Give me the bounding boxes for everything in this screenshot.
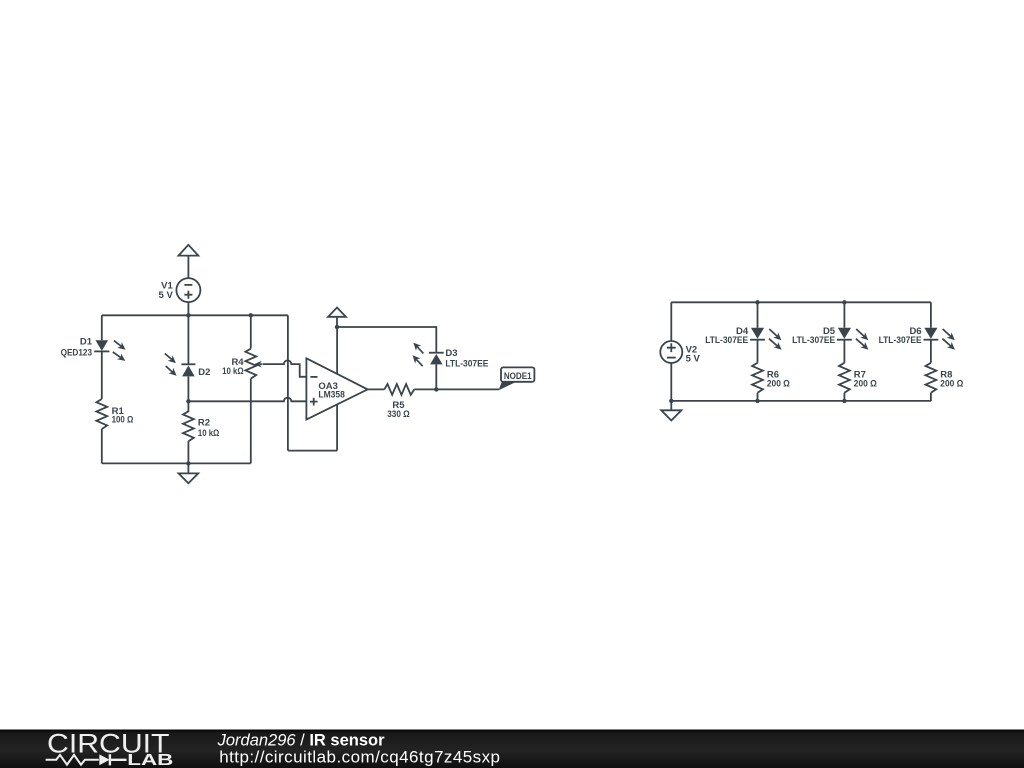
wire R6 to bottom rail — [757, 393, 759, 401]
resistor R6 — [752, 363, 790, 393]
led D5 LTL-307EE — [792, 326, 868, 350]
resistor R5 — [384, 384, 414, 420]
wire R7 to bottom rail — [843, 393, 845, 401]
node junction D3/R5 — [434, 387, 438, 391]
voltage source V1 — [159, 278, 201, 302]
wire top rail right — [671, 301, 931, 303]
wire D4 to R6 — [757, 340, 759, 363]
node junction bottom rail at ground — [186, 461, 190, 465]
wire bottom rail — [102, 462, 251, 464]
wire top rail — [102, 314, 288, 316]
node junction bottom rail D5 branch — [842, 399, 846, 403]
power supply symbol VCC2 — [328, 308, 346, 328]
svg-text:5 V: 5 V — [159, 290, 174, 301]
wire D3 to output — [435, 364, 437, 389]
svg-text:10 kΩ: 10 kΩ — [198, 428, 220, 439]
svg-text:330 Ω: 330 Ω — [387, 409, 410, 420]
power supply symbol VCC1 — [179, 245, 199, 279]
resistor R1 — [96, 399, 133, 429]
svg-text:R2: R2 — [198, 417, 210, 428]
wire V1 to top rail — [187, 302, 189, 316]
wire rail to D6 — [930, 302, 932, 328]
wire op-amp supply vertical — [336, 327, 338, 451]
led D3 LTL-307EE — [413, 343, 489, 370]
wire V2 to bottom rail — [670, 363, 672, 401]
wire R8 to bottom rail — [930, 393, 932, 401]
svg-text:LTL-307EE: LTL-307EE — [792, 335, 835, 346]
led D6 LTL-307EE — [879, 326, 955, 350]
potentiometer R4 — [222, 349, 262, 379]
svg-text:10 kΩ: 10 kΩ — [222, 366, 244, 377]
logo wire with resistor — [46, 755, 99, 765]
wire node to op-amp plus input (hop over vertical) — [188, 398, 306, 402]
wire R4 wiper to op-amp minus input (hop over vertical) — [263, 360, 307, 376]
svg-text:200 Ω: 200 Ω — [940, 378, 963, 389]
wire R5 to NODE1 — [414, 388, 499, 390]
wire rail to D2 — [187, 315, 189, 364]
svg-text:http://circuitlab.com/cq46tg7z: http://circuitlab.com/cq46tg7z45sxp — [219, 747, 500, 766]
svg-text:LTL-307EE: LTL-307EE — [705, 335, 748, 346]
wire rail to V2 — [670, 302, 672, 341]
node junction top rail D4 — [755, 300, 759, 304]
svg-text:5 V: 5 V — [686, 353, 701, 364]
ground — [179, 463, 199, 483]
wire bottom rail right — [671, 400, 931, 402]
wire rail to R4 — [250, 315, 252, 348]
voltage source V2 — [660, 341, 700, 364]
node junction bottom rail D4 branch — [755, 399, 759, 403]
wire R1 to bottom rail — [101, 429, 103, 463]
logo diode — [99, 754, 109, 765]
node junction D2/R2 to op-amp + — [186, 399, 190, 403]
wire R2 to bottom rail — [187, 441, 189, 463]
svg-text:LTL-307EE: LTL-307EE — [445, 359, 488, 370]
node junction V2/ground — [669, 399, 673, 403]
wire rail to D4 — [757, 302, 759, 328]
diode D1 QED123 — [61, 337, 126, 361]
resistor R7 — [839, 363, 877, 393]
resistor R8 — [926, 363, 964, 393]
wire R4 bottom to rail corner — [250, 379, 252, 464]
svg-text:QED123: QED123 — [61, 347, 92, 358]
wire D6 to R8 — [930, 340, 932, 363]
node junction top rail at R4 branch — [249, 313, 253, 317]
svg-text:LTL-307EE: LTL-307EE — [879, 335, 922, 346]
wire D5 to R7 — [843, 340, 845, 363]
svg-text:LM358: LM358 — [318, 390, 345, 401]
svg-text:LAB: LAB — [127, 752, 173, 768]
ground right — [661, 401, 681, 421]
node junction top rail at V1 — [186, 313, 190, 317]
wire rail to D1 — [101, 315, 103, 340]
wire bottom link — [288, 450, 337, 452]
svg-text:200 Ω: 200 Ω — [854, 378, 877, 389]
svg-text:D2: D2 — [198, 367, 210, 378]
wire op-amp output — [368, 388, 385, 390]
resistor R2 — [183, 411, 220, 441]
svg-text:D1: D1 — [80, 337, 93, 348]
wire supply to D3 — [337, 327, 436, 353]
op-amp U1 OA3 LM358 — [306, 358, 367, 419]
wire rail right end down — [287, 315, 289, 450]
svg-text:NODE1: NODE1 — [504, 371, 532, 382]
photodiode D2 — [165, 354, 211, 378]
svg-text:100 Ω: 100 Ω — [112, 415, 134, 426]
wire D2 to R2 — [187, 376, 189, 412]
svg-text:200 Ω: 200 Ω — [767, 378, 790, 389]
node junction supply/D3 — [335, 325, 339, 329]
wire D1 to R1 — [101, 351, 103, 399]
wire rail to D5 — [843, 302, 845, 328]
node flag NODE1 — [499, 367, 535, 390]
node junction top rail D5 — [842, 300, 846, 304]
led D4 LTL-307EE — [705, 326, 781, 350]
